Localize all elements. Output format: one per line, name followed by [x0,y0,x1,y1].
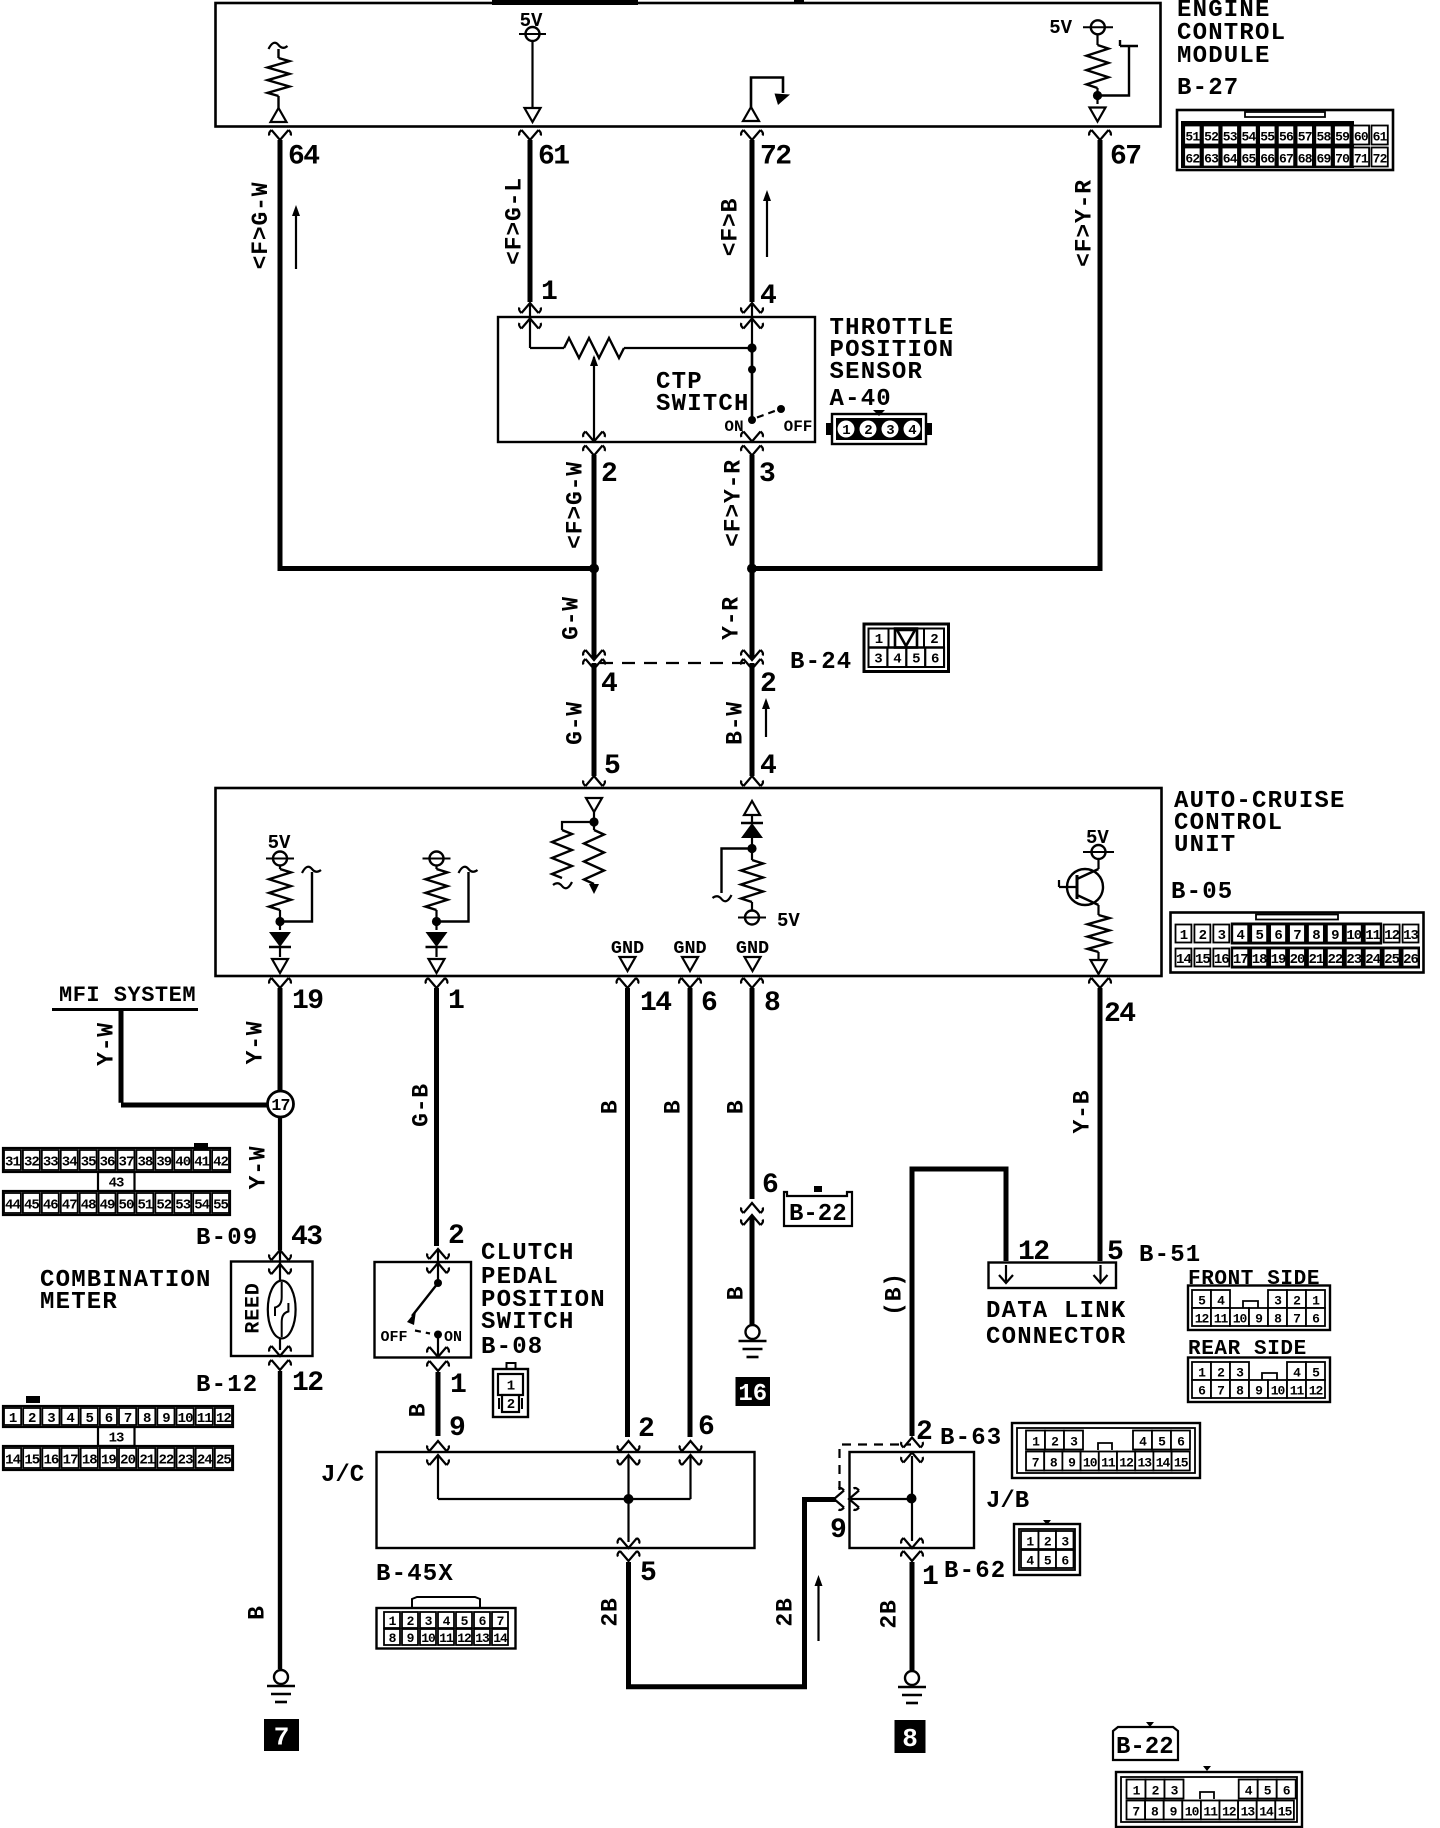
svg-text:Y-B: Y-B [1070,1090,1096,1134]
svg-text:4: 4 [893,652,901,668]
svg-text:71: 71 [1354,152,1369,167]
svg-text:68: 68 [1298,152,1313,167]
svg-text:4: 4 [601,669,617,700]
svg-text:13: 13 [1137,1456,1152,1471]
svg-text:3: 3 [1274,1294,1282,1309]
svg-text:2B: 2B [773,1597,799,1626]
svg-text:2: 2 [601,459,617,490]
svg-text:2: 2 [1217,1366,1225,1381]
svg-text:MODULE: MODULE [1177,43,1271,70]
svg-text:4: 4 [1217,1294,1225,1309]
svg-text:45: 45 [24,1198,39,1214]
svg-text:1: 1 [1133,1784,1141,1799]
svg-text:14: 14 [1259,1805,1274,1820]
svg-text:26: 26 [1403,952,1418,968]
svg-text:53: 53 [1223,130,1238,145]
svg-text:2: 2 [864,423,872,439]
svg-text:B-12: B-12 [196,1372,258,1399]
svg-text:2: 2 [760,669,776,700]
svg-text:Y-W: Y-W [243,1021,269,1065]
svg-text:39: 39 [156,1155,171,1171]
svg-text:31: 31 [5,1155,20,1171]
svg-text:12: 12 [1384,928,1399,944]
svg-text:1: 1 [9,1411,17,1427]
svg-text:FRONT SIDE: FRONT SIDE [1188,1268,1320,1291]
svg-text:3: 3 [425,1614,433,1629]
svg-text:2: 2 [507,1397,515,1413]
svg-text:B-24: B-24 [790,649,852,676]
svg-text:18: 18 [82,1453,97,1469]
svg-text:1: 1 [541,277,557,308]
svg-text:<F>Y-R: <F>Y-R [1072,179,1098,267]
svg-text:72: 72 [760,142,791,173]
svg-text:9: 9 [1255,1384,1263,1399]
svg-text:2: 2 [1044,1535,1052,1550]
svg-text:4: 4 [443,1614,451,1629]
svg-text:48: 48 [81,1198,96,1214]
svg-text:G-W: G-W [559,596,585,640]
svg-text:13: 13 [109,1431,124,1447]
svg-text:5: 5 [1107,1237,1123,1268]
svg-text:67: 67 [1279,152,1293,167]
svg-text:37: 37 [119,1155,134,1171]
svg-text:13: 13 [1403,928,1418,944]
svg-text:SWITCH: SWITCH [656,391,750,418]
svg-text:41: 41 [194,1155,209,1171]
svg-text:9: 9 [1331,928,1339,944]
svg-text:3: 3 [47,1411,55,1427]
svg-text:12: 12 [1309,1384,1324,1399]
svg-text:2: 2 [1152,1784,1160,1799]
svg-text:1: 1 [842,423,850,439]
svg-text:5: 5 [1264,1784,1272,1799]
svg-text:24: 24 [1104,999,1135,1030]
svg-text:4: 4 [760,751,776,782]
svg-text:7: 7 [1217,1384,1224,1399]
svg-text:9: 9 [162,1411,170,1427]
svg-text:59: 59 [1335,130,1350,145]
svg-text:54: 54 [1242,130,1257,145]
svg-text:17: 17 [63,1453,78,1469]
svg-text:8: 8 [902,1724,918,1754]
svg-text:22: 22 [159,1453,174,1469]
svg-text:20: 20 [1290,952,1305,968]
svg-text:16: 16 [44,1453,59,1469]
svg-text:9: 9 [830,1515,846,1546]
svg-text:11: 11 [1101,1456,1116,1471]
svg-text:8: 8 [1151,1805,1159,1820]
svg-text:6: 6 [698,1412,714,1443]
svg-text:2B: 2B [598,1597,624,1626]
svg-text:B-27: B-27 [1177,75,1239,102]
svg-text:1: 1 [1180,928,1188,944]
svg-text:6: 6 [762,1170,778,1201]
svg-text:1: 1 [922,1562,938,1593]
svg-text:13: 13 [1241,1805,1256,1820]
svg-text:35: 35 [81,1155,96,1171]
svg-text:Y-R: Y-R [719,596,745,640]
svg-text:11: 11 [197,1411,212,1427]
svg-text:46: 46 [43,1198,58,1214]
svg-text:11: 11 [1290,1384,1305,1399]
svg-text:21: 21 [1309,952,1324,968]
svg-text:5: 5 [1198,1294,1206,1309]
svg-text:J/C: J/C [321,1462,364,1489]
svg-text:10: 10 [178,1411,193,1427]
svg-text:METER: METER [40,1289,118,1316]
svg-text:58: 58 [1316,130,1331,145]
svg-text:24: 24 [1365,952,1380,968]
svg-text:70: 70 [1335,152,1350,167]
svg-text:Y-W: Y-W [94,1022,120,1066]
svg-text:15: 15 [1174,1456,1189,1471]
svg-text:2: 2 [28,1411,36,1427]
svg-text:<F>B: <F>B [718,198,744,256]
svg-text:(B): (B) [882,1272,908,1316]
svg-text:3: 3 [886,423,894,439]
svg-text:13: 13 [475,1631,490,1646]
svg-text:51: 51 [1185,130,1200,145]
svg-text:9: 9 [407,1631,415,1646]
svg-text:9: 9 [1068,1456,1076,1471]
svg-text:12: 12 [1222,1805,1237,1820]
svg-text:67: 67 [1110,142,1141,173]
svg-text:7: 7 [1032,1456,1039,1471]
svg-text:A-40: A-40 [830,386,892,413]
svg-text:10: 10 [1083,1456,1098,1471]
svg-text:11: 11 [439,1631,454,1646]
svg-text:Y-W: Y-W [246,1146,272,1190]
svg-text:5V: 5V [1049,17,1072,39]
svg-text:6: 6 [479,1614,487,1629]
svg-text:6: 6 [1177,1435,1185,1450]
svg-text:61: 61 [538,142,569,173]
svg-text:65: 65 [1242,152,1257,167]
svg-text:7: 7 [124,1411,132,1427]
svg-text:5: 5 [640,1558,656,1589]
svg-text:12: 12 [1018,1237,1049,1268]
svg-text:3: 3 [1171,1784,1179,1799]
svg-text:1: 1 [875,632,883,648]
svg-text:5: 5 [1312,1366,1320,1381]
svg-text:6: 6 [931,652,939,668]
svg-text:8: 8 [143,1411,151,1427]
svg-text:6: 6 [1312,1312,1320,1327]
svg-text:56: 56 [1279,130,1294,145]
svg-text:<F>G-W: <F>G-W [248,182,274,270]
svg-text:2: 2 [638,1414,654,1445]
svg-text:2: 2 [930,632,938,648]
svg-text:B: B [724,1099,750,1114]
svg-text:14: 14 [1176,952,1191,968]
svg-text:1: 1 [507,1379,515,1395]
svg-text:B-62: B-62 [944,1558,1006,1585]
svg-text:GND: GND [736,938,769,959]
svg-text:B-W: B-W [723,701,749,745]
svg-text:23: 23 [1346,952,1361,968]
svg-text:4: 4 [66,1411,74,1427]
svg-text:8: 8 [1312,928,1320,944]
svg-text:2B: 2B [877,1599,903,1628]
svg-text:22: 22 [1327,952,1342,968]
svg-text:B-09: B-09 [196,1225,258,1252]
svg-text:B: B [598,1099,624,1114]
svg-text:8: 8 [764,988,780,1019]
svg-text:14: 14 [493,1631,508,1646]
svg-text:50: 50 [119,1198,134,1214]
svg-text:63: 63 [1204,152,1219,167]
svg-text:1: 1 [1026,1535,1034,1550]
svg-text:2: 2 [1199,928,1207,944]
svg-text:64: 64 [288,142,319,173]
svg-text:25: 25 [216,1453,231,1469]
svg-text:10: 10 [1233,1312,1248,1327]
svg-text:10: 10 [1346,928,1361,944]
svg-text:57: 57 [1298,130,1312,145]
svg-text:15: 15 [24,1453,39,1469]
svg-text:72: 72 [1373,152,1388,167]
svg-text:23: 23 [178,1453,193,1469]
svg-text:24: 24 [197,1453,212,1469]
svg-text:UNIT: UNIT [1174,832,1236,859]
svg-text:3: 3 [1236,1366,1244,1381]
svg-text:5: 5 [1255,928,1263,944]
svg-text:15: 15 [1195,952,1210,968]
svg-text:7: 7 [274,1722,290,1752]
svg-text:8: 8 [389,1631,397,1646]
svg-text:11: 11 [1365,928,1380,944]
svg-text:B-08: B-08 [481,1334,543,1361]
svg-text:8: 8 [1274,1312,1282,1327]
svg-text:66: 66 [1260,152,1275,167]
svg-text:3: 3 [1061,1535,1069,1550]
svg-text:2: 2 [448,1221,464,1252]
svg-text:B: B [724,1286,750,1301]
svg-text:55: 55 [213,1198,228,1214]
svg-text:5V: 5V [777,910,800,932]
svg-text:64: 64 [1223,152,1238,167]
svg-text:2: 2 [407,1614,415,1629]
svg-text:12: 12 [1195,1312,1210,1327]
svg-text:<F>G-L: <F>G-L [502,177,528,265]
svg-text:ON: ON [444,1329,462,1346]
svg-text:11: 11 [1203,1805,1218,1820]
svg-text:7: 7 [497,1614,504,1629]
svg-text:DATA LINK: DATA LINK [986,1298,1126,1325]
svg-text:4: 4 [1139,1435,1147,1450]
svg-text:16: 16 [738,1381,767,1408]
svg-text:4: 4 [1245,1784,1253,1799]
svg-text:12: 12 [1119,1456,1134,1471]
svg-text:8: 8 [1236,1384,1244,1399]
svg-text:1: 1 [450,1370,466,1401]
svg-text:4: 4 [760,281,776,312]
svg-text:MFI SYSTEM: MFI SYSTEM [59,983,196,1008]
svg-text:GND: GND [611,938,644,959]
svg-text:6: 6 [1283,1784,1291,1799]
svg-text:19: 19 [1271,952,1286,968]
svg-text:42: 42 [213,1155,228,1171]
svg-text:54: 54 [194,1198,209,1214]
svg-text:32: 32 [24,1155,39,1171]
svg-text:3: 3 [1070,1435,1078,1450]
svg-text:40: 40 [175,1155,190,1171]
svg-text:5: 5 [1158,1435,1166,1450]
svg-text:2: 2 [1293,1294,1301,1309]
svg-text:<F>G-W: <F>G-W [563,461,589,549]
svg-text:53: 53 [175,1198,190,1214]
svg-text:34: 34 [62,1155,77,1171]
svg-text:7: 7 [1293,928,1301,944]
svg-text:10: 10 [421,1631,436,1646]
svg-text:B-22: B-22 [789,1201,847,1228]
svg-text:SWITCH: SWITCH [481,1309,575,1336]
svg-text:1: 1 [1032,1435,1040,1450]
svg-text:51: 51 [137,1198,152,1214]
svg-text:1: 1 [448,986,464,1017]
svg-text:B-63: B-63 [940,1425,1002,1452]
svg-text:9: 9 [1255,1312,1263,1327]
svg-text:47: 47 [62,1198,77,1214]
svg-text:B: B [245,1605,271,1620]
svg-text:6: 6 [1274,928,1282,944]
svg-text:CONNECTOR: CONNECTOR [986,1324,1126,1351]
svg-text:62: 62 [1185,152,1200,167]
svg-text:B: B [406,1403,432,1418]
svg-text:25: 25 [1384,952,1399,968]
svg-text:5: 5 [1044,1554,1052,1569]
svg-text:44: 44 [5,1198,20,1214]
svg-text:5: 5 [86,1411,94,1427]
svg-text:G-B: G-B [409,1083,435,1127]
svg-text:2: 2 [1051,1435,1059,1450]
svg-text:17: 17 [1233,952,1248,968]
svg-text:6: 6 [105,1411,113,1427]
svg-text:7: 7 [1293,1312,1300,1327]
svg-text:5: 5 [912,652,920,668]
svg-text:12: 12 [216,1411,231,1427]
svg-text:52: 52 [156,1198,171,1214]
svg-text:61: 61 [1373,130,1388,145]
svg-text:8: 8 [1050,1456,1058,1471]
svg-text:21: 21 [139,1453,154,1469]
svg-text:12: 12 [457,1631,472,1646]
svg-text:10: 10 [1185,1805,1200,1820]
svg-text:2: 2 [916,1417,932,1448]
svg-text:14: 14 [640,988,671,1019]
svg-text:3: 3 [759,459,775,490]
svg-text:38: 38 [137,1155,152,1171]
svg-text:6: 6 [701,988,717,1019]
svg-text:3: 3 [1218,928,1226,944]
svg-text:10: 10 [1271,1384,1286,1399]
svg-text:52: 52 [1204,130,1219,145]
svg-text:43: 43 [109,1176,124,1192]
svg-text:19: 19 [292,986,323,1017]
svg-text:GND: GND [673,938,706,959]
svg-text:B: B [661,1099,687,1114]
svg-text:G-W: G-W [563,701,589,745]
svg-text:OFF: OFF [380,1329,407,1346]
svg-text:OFF: OFF [784,418,813,436]
svg-text:CLUTCH: CLUTCH [481,1240,575,1267]
svg-text:4: 4 [908,423,916,439]
svg-text:49: 49 [100,1198,115,1214]
svg-text:14: 14 [5,1453,20,1469]
svg-text:60: 60 [1354,130,1369,145]
svg-text:14: 14 [1156,1456,1171,1471]
svg-text:69: 69 [1316,152,1331,167]
svg-text:1: 1 [389,1614,397,1629]
svg-text:1: 1 [1198,1366,1206,1381]
svg-text:4: 4 [1026,1554,1034,1569]
svg-text:5: 5 [461,1614,469,1629]
svg-text:9: 9 [1170,1805,1178,1820]
svg-text:55: 55 [1260,130,1275,145]
svg-text:9: 9 [449,1413,465,1444]
svg-text:12: 12 [292,1368,323,1399]
svg-text:6: 6 [1198,1384,1206,1399]
svg-text:REED: REED [243,1282,266,1333]
svg-text:20: 20 [120,1453,135,1469]
svg-text:33: 33 [43,1155,58,1171]
svg-text:4: 4 [1293,1366,1301,1381]
svg-text:B-45X: B-45X [376,1561,454,1588]
svg-text:B-05: B-05 [1171,879,1233,906]
svg-text:19: 19 [101,1453,116,1469]
svg-text:4: 4 [1237,928,1245,944]
svg-text:J/B: J/B [986,1488,1029,1515]
svg-text:11: 11 [1214,1312,1229,1327]
svg-text:B-22: B-22 [1116,1734,1174,1761]
svg-text:7: 7 [1132,1805,1139,1820]
svg-text:<F>Y-R: <F>Y-R [721,459,747,547]
svg-text:1: 1 [1312,1294,1320,1309]
svg-text:43: 43 [291,1222,322,1253]
svg-text:B-51: B-51 [1139,1242,1201,1269]
svg-text:17: 17 [271,1096,289,1115]
svg-text:6: 6 [1061,1554,1069,1569]
svg-text:18: 18 [1252,952,1267,968]
svg-text:15: 15 [1278,1805,1293,1820]
svg-text:16: 16 [1214,952,1229,968]
svg-text:SENSOR: SENSOR [830,359,924,386]
svg-text:5: 5 [604,751,620,782]
svg-text:3: 3 [874,652,882,668]
svg-text:36: 36 [100,1155,115,1171]
